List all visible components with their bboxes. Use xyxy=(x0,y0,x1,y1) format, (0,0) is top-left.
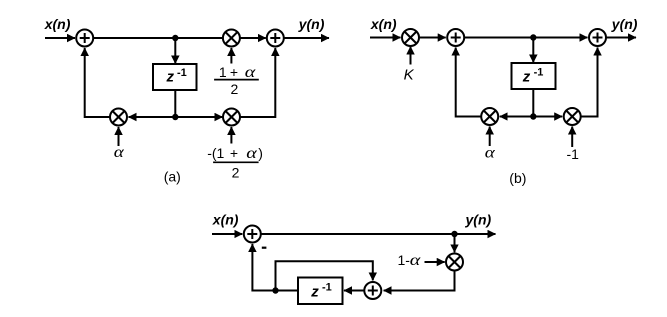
svg-text:z: z xyxy=(166,69,175,86)
wire coefficient arrow into M1a xyxy=(230,48,232,64)
node N1b junction xyxy=(530,34,536,40)
wire Z1c output to adder S1c xyxy=(252,244,298,291)
multiplier M1c xyxy=(446,254,463,271)
label minus sign at S1c xyxy=(262,247,267,249)
wire 1-alpha arrow into M1c xyxy=(425,261,445,263)
wire output S2a to y(n) xyxy=(284,37,329,39)
wire output S1c to y(n) xyxy=(261,233,495,235)
wire M3a feedforward to adder S2a xyxy=(241,48,276,117)
svg-text:1: 1 xyxy=(219,64,227,80)
svg-text:+: + xyxy=(230,145,238,161)
node N2a junction xyxy=(172,114,178,120)
wire S1a to multiplier M1a xyxy=(94,37,223,39)
svg-text:α: α xyxy=(410,252,421,269)
svg-text:+: + xyxy=(230,64,238,80)
svg-text:): ) xyxy=(258,145,263,161)
node N2b junction xyxy=(530,113,536,119)
svg-text:z: z xyxy=(522,69,531,86)
svg-text:x(n): x(n) xyxy=(370,16,397,32)
multiplier M3a xyxy=(223,109,240,126)
svg-text:1-: 1- xyxy=(398,252,411,268)
wire output S2b to y(n) xyxy=(607,37,637,39)
wire M3b feedforward to adder S2b xyxy=(581,48,597,117)
delay box Z1c z^-1 xyxy=(298,278,343,305)
wire S1b to adder S2b xyxy=(465,37,588,39)
svg-text:-(1: -(1 xyxy=(207,145,224,161)
svg-text:x(n): x(n) xyxy=(212,212,239,228)
adder S1b xyxy=(447,29,464,46)
svg-text:2: 2 xyxy=(232,164,240,180)
wire coefficient arrow into M2a xyxy=(118,127,120,146)
node N2c junction xyxy=(272,287,278,293)
wire S2c to delay box Z1c xyxy=(344,290,364,292)
adder S1a xyxy=(76,30,93,47)
svg-text:α: α xyxy=(245,64,256,81)
wire Z1b down to node N2b xyxy=(532,89,534,117)
svg-text:-1: -1 xyxy=(322,281,332,293)
svg-text:x(n): x(n) xyxy=(44,16,71,32)
wire coefficient arrow into M2b xyxy=(489,127,491,147)
multiplier M3b xyxy=(564,108,581,125)
svg-text:α: α xyxy=(246,145,257,162)
delay box Z1a z^-1 xyxy=(153,64,197,90)
wire N1a down to delay box Z1a xyxy=(174,38,176,64)
svg-text:z: z xyxy=(310,284,319,301)
wire input x(n) to multiplier M1b xyxy=(370,37,401,39)
svg-text:α: α xyxy=(114,144,125,161)
adder S2c xyxy=(364,282,381,299)
svg-text:-1: -1 xyxy=(177,67,187,79)
wire input x(n) to adder S1a xyxy=(45,37,75,39)
wire M1c down and left to adder S2c xyxy=(384,271,455,291)
wire N2b to multiplier M3b xyxy=(533,116,562,118)
svg-text:(b): (b) xyxy=(509,170,526,186)
wire input x(n) to adder S1c xyxy=(212,233,242,235)
wire Z1a down to node N2a xyxy=(174,90,176,117)
svg-text:-1: -1 xyxy=(567,146,580,162)
wire N2b to multiplier M2b xyxy=(500,116,534,118)
delay box Z1b z^-1 xyxy=(512,63,556,89)
wire coefficient arrow into M3b xyxy=(571,127,573,148)
svg-text:2: 2 xyxy=(231,81,239,97)
wire N1c down to multiplier M1c xyxy=(454,234,456,252)
wire M2b feedback to adder S1b xyxy=(456,48,481,117)
adder S2b xyxy=(589,29,606,46)
wire N2a to multiplier M3a xyxy=(175,116,222,118)
adder S1c xyxy=(244,226,261,243)
multiplier M2a xyxy=(110,109,127,126)
svg-text:α: α xyxy=(485,145,496,162)
svg-text:(a): (a) xyxy=(164,169,181,185)
wire M1b to adder S1b xyxy=(420,37,446,39)
svg-text:y(n): y(n) xyxy=(465,212,492,228)
svg-text:y(n): y(n) xyxy=(298,16,325,32)
wire coefficient arrow into M3a xyxy=(230,127,232,144)
node N1c junction xyxy=(451,231,457,237)
node N1a junction xyxy=(172,35,178,41)
svg-text:-1: -1 xyxy=(534,67,544,79)
adder S2a xyxy=(267,30,284,47)
multiplier M2b xyxy=(481,108,498,125)
wire M2a feedback to adder S1a xyxy=(85,48,110,117)
wire N1b down to delay box Z1b xyxy=(532,38,534,63)
wire N2a to multiplier M2a xyxy=(129,116,176,118)
svg-text:y(n): y(n) xyxy=(611,16,638,32)
wire N2c loop over Z1c to S2c xyxy=(276,261,373,290)
wire M1a to adder S2a xyxy=(240,37,265,39)
svg-text:K: K xyxy=(404,67,415,84)
wire K coefficient arrow into M1b xyxy=(410,47,412,65)
multiplier M1a xyxy=(223,30,240,47)
multiplier M1b xyxy=(402,29,419,46)
